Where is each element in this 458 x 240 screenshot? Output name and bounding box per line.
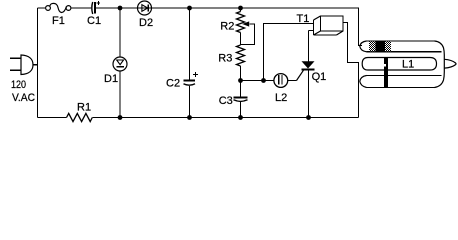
svg-text:R3: R3 [218, 53, 232, 65]
wire top rail fuse to C1 [71, 7, 91, 9]
resistor R1 (bottom rail) [67, 113, 93, 121]
wire R3 node to L2 [241, 80, 275, 82]
node junction R3/C3 to L2 [238, 78, 243, 83]
node junction Q1 bottom [306, 115, 311, 120]
AC plug source 120 V.AC [10, 55, 38, 75]
capacitor C2 branch [189, 8, 191, 80]
resistor R3 [237, 45, 245, 66]
R2 wiper arrow [242, 21, 249, 26]
svg-text:L1: L1 [402, 59, 414, 71]
svg-text:F1: F1 [52, 15, 65, 27]
svg-text:D2: D2 [139, 17, 153, 29]
SCR Q1 [302, 61, 315, 68]
node junction R2 top [238, 6, 243, 11]
fuse F1 [46, 3, 71, 12]
lamp top electrode hatch 2 [385, 41, 391, 51]
node junction C2 top [187, 6, 192, 11]
node junction L2/T1 wire [261, 78, 266, 83]
svg-text:C1: C1 [87, 15, 101, 27]
diode D2 [138, 1, 152, 15]
svg-text:L2: L2 [275, 92, 287, 104]
SCR Q1 anode wire [308, 31, 310, 62]
T1 pin to Q1 anode [309, 30, 314, 32]
svg-text:T1: T1 [297, 13, 310, 25]
node junction D1 top [118, 6, 123, 11]
svg-text:C2: C2 [166, 78, 180, 90]
neon lamp L2 [274, 74, 288, 88]
wire bottom rail left [38, 117, 67, 119]
wire bottom rail right [92, 117, 358, 119]
wire top rail D2 to lamp corner, down to lamp top cap [152, 8, 363, 46]
node junction C2 bottom [187, 115, 192, 120]
T1 right pin wire to lamp bottom [343, 23, 359, 118]
svg-text:C3: C3 [219, 95, 233, 107]
svg-text:120: 120 [11, 79, 26, 91]
lamp top electrode hatch 1 [369, 41, 376, 51]
wire top rail corner to fuse [38, 7, 46, 9]
capacitor C2 [184, 81, 196, 86]
capacitor C1 [92, 2, 95, 14]
inner slot [362, 58, 436, 71]
svg-text:D1: D1 [104, 73, 118, 85]
svg-text:Q1: Q1 [312, 71, 327, 83]
wire node to T1 primary [264, 24, 314, 81]
node junction D1 bottom [118, 115, 123, 120]
wire L2 to Q1 gate [288, 80, 297, 82]
svg-text:R1: R1 [77, 102, 91, 114]
lamp L1 (twin-tube fluorescent) [360, 41, 456, 88]
potentiometer R2 [240, 8, 242, 12]
bottom tube left cap [360, 76, 367, 88]
lamp bottom electrode bar [384, 58, 388, 88]
bottom tube walls [367, 76, 442, 88]
transformer T1 (3D box) [314, 16, 344, 35]
diode D1 branch wire [119, 8, 121, 57]
svg-text:R2: R2 [220, 21, 234, 33]
svg-text:V.AC: V.AC [12, 92, 35, 104]
Q1 gate diagonal [297, 70, 304, 80]
wire left rail [37, 8, 39, 118]
wire top rail C1 to D2 [96, 7, 138, 9]
capacitor C3 [234, 98, 248, 102]
node junction C3 bottom [238, 115, 243, 120]
lamp top electrode black block [376, 41, 386, 51]
top tube left cap [360, 41, 367, 52]
right bend outer [435, 41, 445, 88]
top tube walls [367, 41, 442, 52]
diode D1 [113, 57, 127, 71]
